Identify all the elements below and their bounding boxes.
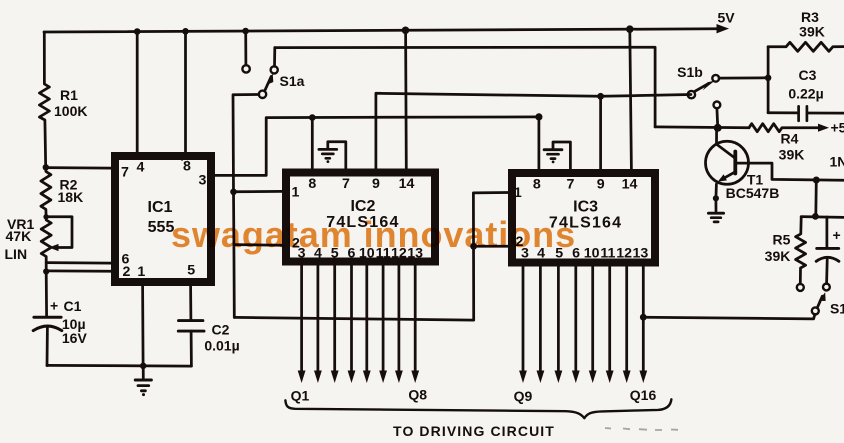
node rail-S1a — [242, 28, 249, 35]
wire IC2 output Q3 — [333, 266, 336, 372]
svg-text:7: 7 — [121, 165, 129, 181]
svg-text:+: + — [833, 227, 841, 243]
svg-text:3: 3 — [199, 173, 207, 189]
node rail-pin8 — [182, 28, 189, 35]
svg-text:IC3: IC3 — [573, 199, 598, 216]
ground T1 — [715, 198, 718, 211]
wire S1b to R3C3 — [719, 76, 768, 79]
svg-text:11: 11 — [600, 246, 615, 262]
ground main — [142, 366, 145, 378]
wire IC3 output Q9 — [522, 267, 525, 372]
wire IC3 pin9 col — [599, 96, 602, 169]
wire IC1 pin1 to rail — [141, 286, 144, 366]
arrow Q13 — [589, 371, 597, 384]
wire S1a common down — [233, 95, 259, 318]
wire Q16 line to S1 — [643, 314, 815, 319]
svg-text:9: 9 — [372, 176, 380, 192]
wire IC1 pin3 out — [215, 117, 539, 175]
arrow Q6 — [379, 371, 387, 384]
node emitter — [713, 195, 719, 201]
svg-text:TO DRIVING CIRCUIT: TO DRIVING CIRCUIT — [393, 423, 555, 439]
arrow Q14 — [606, 371, 614, 384]
svg-text:39K: 39K — [765, 248, 791, 264]
svg-text:1: 1 — [292, 185, 300, 201]
wire T1 base line / R4 — [655, 126, 749, 130]
node rail-IC2pin14 — [402, 27, 410, 35]
IC IC1 555 box — [115, 156, 211, 282]
arrow Q8 — [411, 371, 419, 384]
svg-text:18K: 18K — [58, 189, 84, 205]
arrow Q1 — [298, 371, 306, 384]
wire IC2 pin1 stub — [234, 190, 283, 193]
wire IC2 output Q5 — [365, 266, 368, 372]
svg-text:swagatam innovations: swagatam innovations — [171, 214, 576, 255]
wire IC3 pin2 stub — [474, 245, 508, 248]
svg-text:S1a: S1a — [280, 73, 305, 89]
arrow Q15 — [623, 371, 631, 384]
svg-text:1N: 1N — [830, 154, 844, 170]
svg-text:7: 7 — [342, 176, 350, 192]
brace TO DRIVING CIRCUIT — [285, 399, 671, 418]
svg-text:9: 9 — [597, 177, 605, 193]
wire IC3 output Q10 — [539, 267, 542, 372]
svg-text:Q9: Q9 — [514, 388, 533, 404]
arrow Q12 — [572, 371, 580, 384]
svg-text:10: 10 — [584, 246, 600, 262]
capacitor C3 — [768, 111, 798, 114]
svg-text:16V: 16V — [62, 330, 88, 346]
wire 5V top rail — [44, 29, 718, 32]
wire S1a feed line to right — [275, 47, 655, 127]
wire IC3 output Q15 — [625, 267, 628, 372]
wire IC2 pin9 riser + reset line — [376, 93, 691, 168]
node rail-ground — [140, 363, 147, 370]
svg-text:LIN: LIN — [5, 246, 28, 262]
node base-S1b-R4 — [714, 124, 722, 132]
svg-text:47K: 47K — [6, 228, 32, 244]
svg-text:BC547B: BC547B — [726, 185, 780, 201]
capacitor C2 — [179, 319, 203, 322]
svg-text:12: 12 — [616, 246, 632, 262]
arrow Q2 — [314, 371, 322, 384]
svg-text:2: 2 — [122, 264, 130, 280]
potentiometer VR1 — [41, 217, 51, 272]
resistor R1 — [39, 32, 49, 167]
svg-text:S1: S1 — [830, 301, 844, 317]
wire 5V arrowhead — [717, 24, 730, 33]
node rail-IC3pin14 — [626, 25, 634, 33]
svg-text:8: 8 — [308, 176, 316, 192]
svg-text:14: 14 — [622, 177, 638, 193]
IC3 pin labels — [514, 177, 649, 262]
wire VR1 wiper loop — [46, 217, 72, 248]
artifacts — [605, 428, 678, 430]
svg-text:8: 8 — [183, 159, 191, 175]
transistor T1 — [706, 141, 749, 184]
svg-text:IC2: IC2 — [350, 198, 375, 215]
svg-text:5: 5 — [187, 263, 195, 279]
svg-text:8: 8 — [533, 177, 541, 193]
wire IC2 pin2 stub — [234, 243, 282, 246]
IC IC2 box — [286, 173, 435, 262]
svg-text:IC1: IC1 — [148, 199, 173, 216]
wire bottom rail — [47, 364, 191, 367]
svg-text:14: 14 — [399, 176, 415, 192]
svg-text:S1b: S1b — [677, 64, 703, 80]
svg-text:5V: 5V — [717, 10, 735, 26]
node serial-IC3pin2 — [470, 243, 477, 250]
node clock-IC3pin8 — [535, 113, 542, 120]
svg-text:C1: C1 — [64, 298, 82, 314]
wire IC2 output Q8 — [414, 266, 417, 372]
wire IC2 output Q2 — [317, 266, 320, 372]
arrow Q11 — [555, 371, 563, 384]
ground IC2 pin7 — [328, 142, 346, 169]
svg-text:7: 7 — [566, 177, 574, 193]
arrow Q7 — [395, 371, 403, 384]
svg-text:Q16: Q16 — [630, 387, 657, 403]
svg-text:R5: R5 — [773, 232, 791, 248]
svg-text:1: 1 — [137, 264, 145, 280]
wire IC3 pin14 riser — [630, 29, 632, 169]
wire IC2 output Q4 — [350, 266, 353, 372]
svg-text:4: 4 — [137, 160, 145, 176]
svg-text:+5: +5 — [831, 120, 844, 136]
svg-text:R1: R1 — [60, 87, 78, 103]
wire R3C3 vertical — [767, 47, 770, 113]
node reset-IC3pin9 — [597, 93, 604, 100]
arrow Q3 — [331, 371, 339, 384]
svg-text:0.01µ: 0.01µ — [204, 338, 239, 354]
wire node to collector line — [814, 180, 817, 216]
switch S1a — [244, 31, 247, 65]
svg-text:0.22µ: 0.22µ — [788, 86, 823, 102]
switch S1b — [714, 102, 721, 109]
switch S1 bottom right — [812, 307, 819, 314]
svg-text:C3: C3 — [799, 67, 817, 83]
node Q16 line — [640, 314, 647, 321]
wire R5 node line — [801, 215, 844, 219]
svg-text:1: 1 — [514, 185, 522, 201]
svg-text:39K: 39K — [799, 24, 825, 40]
wire IC1 pin8 riser — [184, 31, 187, 152]
node rail-pin4 — [134, 28, 141, 35]
arrow Q10 — [537, 371, 545, 384]
wire IC1 pin4 riser — [136, 32, 139, 153]
wire IC2 pin14 riser — [404, 30, 407, 168]
svg-text:R4: R4 — [781, 131, 799, 147]
arrow Q5 — [363, 371, 371, 384]
svg-text:13: 13 — [633, 246, 649, 262]
arrow Q4 — [348, 371, 356, 384]
wire IC3 pin8 col — [538, 117, 541, 169]
capacitor C1 — [45, 272, 48, 317]
wire IC2 output Q1 — [300, 266, 303, 372]
node R5-C4 — [812, 213, 819, 220]
svg-text:Q1: Q1 — [291, 388, 310, 404]
node S1b-R3C3 — [765, 75, 772, 82]
node collector — [813, 177, 820, 184]
wire IC2 output Q7 — [398, 266, 401, 372]
svg-text:Q8: Q8 — [408, 387, 427, 403]
arrow Q9 — [519, 371, 527, 384]
IC IC3 box — [512, 173, 655, 263]
wire serial line to IC3 — [234, 193, 508, 321]
node VR1-pin2-C1 — [43, 268, 49, 274]
ground IC3 pin7 — [553, 142, 570, 169]
IC2 pin labels — [292, 176, 424, 262]
resistor R2 — [41, 167, 51, 217]
resistor R5 — [796, 217, 806, 284]
IC1 pin labels — [121, 158, 207, 280]
wire pin2 stub — [46, 270, 111, 273]
svg-text:100K: 100K — [54, 103, 87, 119]
wire IC3 output Q12 — [574, 267, 577, 372]
wire IC1 pin5 lead — [189, 286, 192, 320]
resistor R4 — [749, 124, 819, 132]
wire IC3 output Q14 — [608, 267, 611, 372]
arrow Q16 — [639, 371, 647, 384]
wire collector line — [748, 163, 844, 180]
wire pin6 stub — [46, 261, 111, 264]
node R2-VR1 — [43, 214, 48, 219]
svg-text:C2: C2 — [212, 322, 230, 338]
wire IC2 output Q6 — [382, 266, 385, 372]
node R1-R2-pin7 — [43, 164, 49, 170]
wire IC2 pin8 col — [311, 118, 314, 169]
wire IC3 output Q13 — [591, 267, 594, 372]
capacitor C4 — [826, 217, 829, 248]
svg-text:39K: 39K — [779, 147, 805, 163]
wire IC3 output Q16 — [642, 267, 645, 372]
resistor R3 — [768, 42, 844, 51]
svg-text:+: + — [50, 298, 58, 314]
node S1a-IC2pin1 — [230, 189, 237, 196]
wire pin7 stub — [46, 166, 112, 169]
node clock-IC2pin8 — [309, 114, 316, 121]
wire IC3 output Q11 — [557, 267, 560, 372]
